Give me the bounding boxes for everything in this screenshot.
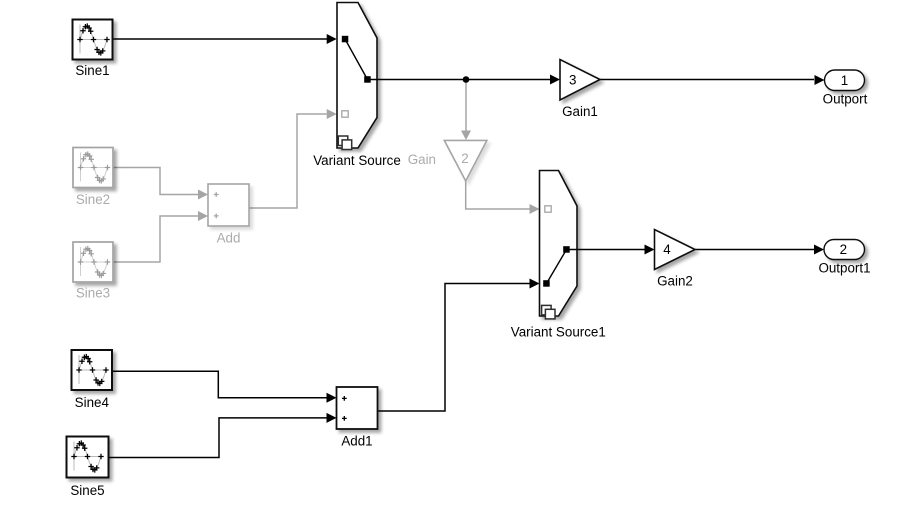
svg-text:Sine1: Sine1 [75,63,109,78]
svg-text:1: 1 [841,73,848,88]
svg-text:Gain1: Gain1 [562,104,598,119]
svg-text:Gain: Gain [408,152,436,167]
svg-text:Sine5: Sine5 [70,483,104,498]
svg-text:Variant Source1: Variant Source1 [511,325,606,340]
svg-text:Outport1: Outport1 [818,261,870,276]
svg-text:Gain2: Gain2 [657,274,693,289]
svg-text:Variant Source: Variant Source [313,153,401,168]
svg-text:Sine4: Sine4 [75,395,110,410]
svg-text:Add1: Add1 [341,434,372,449]
svg-text:4: 4 [663,242,671,257]
svg-text:Outport: Outport [823,92,868,107]
svg-text:Add: Add [217,231,241,246]
svg-text:3: 3 [569,72,576,87]
svg-text:2: 2 [461,151,468,166]
svg-text:Sine3: Sine3 [76,286,110,301]
svg-text:Sine2: Sine2 [76,192,110,207]
svg-text:2: 2 [840,242,847,257]
